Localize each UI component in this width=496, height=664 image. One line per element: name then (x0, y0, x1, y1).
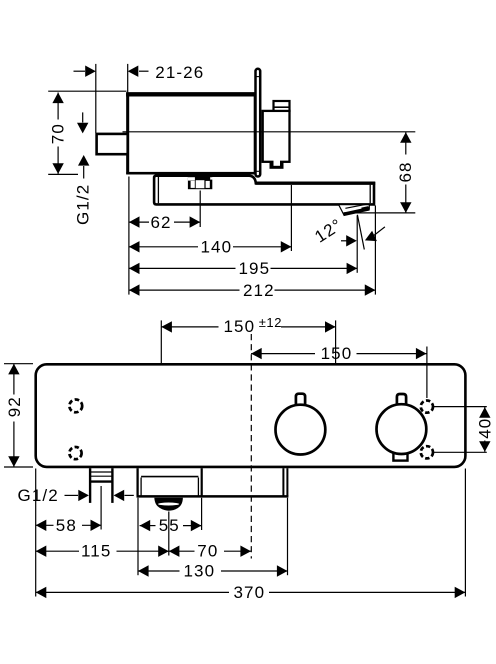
left concealed screw holes (dashed circles) (69, 400, 82, 413)
svg-text:68: 68 (396, 161, 415, 182)
dim 40 line (484, 407, 486, 417)
150 arrows (251, 348, 262, 359)
dim 21-26 line (74, 70, 86, 72)
aerator centre extension (168, 512, 170, 556)
spout right inner line (369, 185, 371, 204)
dim 150 extension right (426, 347, 428, 399)
svg-text:G1/2: G1/2 (74, 184, 93, 225)
body top thick edge (126, 92, 255, 96)
svg-text:370: 370 (234, 583, 266, 602)
shelf right extension (287, 498, 289, 575)
dim 370 line (36, 591, 229, 593)
dim 130 line (138, 570, 180, 572)
body left edge (126, 93, 129, 175)
knob 1 (select) top tab (296, 394, 305, 408)
left body extension line down (35, 469, 37, 597)
dashed vertical centerline (250, 334, 252, 559)
G1/2 inlet square (97, 134, 128, 154)
70 arrows (52, 93, 63, 104)
G1/2 arrows (77, 123, 88, 134)
front view dimension texts (5, 315, 495, 602)
svg-text:115: 115 (81, 542, 111, 561)
knob 1 circle (276, 405, 326, 455)
svg-text:70: 70 (49, 123, 68, 144)
side view arrowheads (52, 66, 411, 296)
mixer body (128, 94, 255, 173)
70 arrows (169, 546, 180, 557)
dim 212 extension (374, 206, 376, 295)
115 arrows (36, 546, 47, 557)
svg-text:150: 150 (224, 317, 256, 336)
aerator dome (front view) (154, 498, 183, 511)
shelf right end walls (282, 468, 284, 496)
spout arm (154, 176, 374, 205)
55 arrows (140, 520, 151, 531)
side view dimension texts (49, 63, 416, 300)
knob 2 top tab (397, 394, 406, 408)
68 arrows (400, 132, 411, 143)
shelf left wall (136, 468, 138, 496)
right concealed connection holes (dashed circles) (421, 401, 433, 413)
dim 55 line (140, 525, 156, 527)
dim 195 extension (356, 215, 358, 272)
62 arrows (129, 216, 140, 227)
svg-text:212: 212 (243, 281, 275, 300)
dim 212 line (129, 289, 240, 291)
svg-text:40: 40 (476, 418, 495, 439)
150+-12 arrows (161, 321, 172, 332)
dim 70 extension lines (48, 90, 126, 92)
dim 70 line (169, 550, 195, 552)
aerator face thick line (343, 209, 369, 215)
40 arrows (479, 407, 490, 418)
spout outlet (tilted 12 deg) (339, 205, 370, 215)
svg-text:140: 140 (201, 238, 233, 257)
12 deg right arrow tail (374, 227, 385, 236)
dim 115 line (36, 550, 79, 552)
dim 150 line (251, 353, 315, 355)
lower housing shelf bottom edge (137, 495, 289, 498)
dim 140 extension (290, 185, 292, 251)
aerator inner line (345, 204, 366, 208)
G1/2 front arrows (78, 490, 89, 501)
dim 140 line (129, 246, 198, 248)
140 arrows (129, 241, 140, 252)
dim 21-26 extension lines (95, 64, 97, 133)
G1/2 leader lines (82, 112, 84, 122)
left supply pipe below body (89, 468, 91, 503)
front view interior + below-body parts (69, 394, 433, 511)
spout left inner line (157, 177, 159, 203)
spout rear top thick edge (255, 181, 375, 184)
svg-text:195: 195 (239, 259, 271, 278)
dim 58 line (36, 524, 54, 526)
dim 150+-12 extension lines (160, 320, 162, 363)
right body extension line down (464, 469, 466, 597)
svg-text:62: 62 (151, 213, 172, 232)
dim 92 line (13, 364, 15, 395)
valve bottom tab (270, 162, 284, 169)
212 arrows (129, 284, 140, 295)
svg-text:±12: ±12 (259, 315, 282, 330)
12 deg tilted reference line (357, 215, 364, 250)
svg-text:58: 58 (56, 516, 77, 535)
centerline of valve body (123, 131, 416, 133)
valve block behind wall plate (263, 111, 290, 162)
main body rounded rectangle (36, 364, 466, 467)
svg-text:21-26: 21-26 (155, 63, 204, 82)
svg-text:130: 130 (184, 562, 216, 581)
pipe centre extension (100, 486, 102, 530)
valve top tab (274, 101, 290, 111)
12 deg arrows (346, 235, 357, 246)
dim 68 line (405, 132, 407, 154)
spout block inner top line (141, 476, 198, 478)
svg-text:150: 150 (321, 344, 353, 363)
aerator notch (362, 207, 369, 209)
svg-text:55: 55 (159, 516, 180, 535)
92 arrows (8, 364, 19, 375)
195 arrows (129, 263, 140, 274)
svg-text:92: 92 (5, 396, 24, 417)
21-26 arrows (85, 66, 96, 77)
svg-text:70: 70 (197, 542, 218, 561)
dim 92 extension lines (4, 363, 33, 365)
wall mounting plate (256, 69, 261, 177)
dim 62 line (129, 221, 149, 223)
dim 68 bottom extension (344, 212, 415, 214)
knob 2 bottom button (393, 448, 407, 461)
12 deg left arrow tail (341, 240, 347, 242)
spout block right walls (197, 478, 199, 496)
dim 195 line (129, 267, 236, 269)
dim 70 line (57, 93, 59, 120)
svg-text:G1/2: G1/2 (18, 486, 59, 505)
diverter nut on spout (188, 176, 213, 189)
front view arrowheads (8, 321, 490, 598)
spout block extensions (137, 498, 139, 575)
dim 150+-12 line (161, 326, 218, 328)
body bottom edge (126, 172, 255, 175)
G1/2 leader (front) (65, 494, 79, 496)
left extension for 62/140/195/212 (128, 177, 130, 295)
58 arrows (36, 520, 47, 531)
dim 40 extension lines (433, 406, 487, 408)
knob 2 circle (377, 404, 427, 454)
dim 62 leader from nut (199, 191, 201, 228)
370 arrows (36, 587, 47, 598)
130 arrows (138, 565, 149, 576)
